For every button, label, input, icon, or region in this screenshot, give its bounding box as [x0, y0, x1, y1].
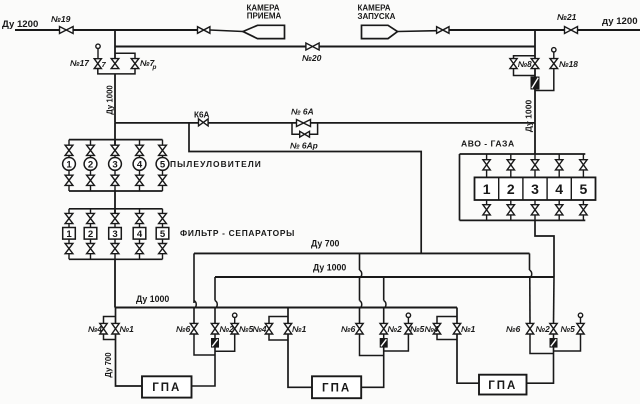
wire: line from valve to receiver chamber tip: [210, 30, 243, 32]
wire: group 3 discharge riser (N2 up): [553, 277, 556, 323]
svg-text:ЗАПУСКА: ЗАПУСКА: [358, 12, 396, 21]
valve below dust collector 2: [87, 175, 95, 185]
wire: suction group 1 bypass top bracket: [104, 317, 116, 324]
wire: right main vertical from K6A line down to AVO top manifold: [534, 123, 536, 154]
wire: top line from launcher valve to outlet valve N21: [449, 29, 565, 31]
restrictor below right main valve: [531, 77, 539, 89]
svg-text:ГПА: ГПА: [152, 382, 181, 394]
valve above filter separator 5: [159, 213, 167, 223]
svg-text:ФИЛЬТР - СЕПАРАТОРЫ: ФИЛЬТР - СЕПАРАТОРЫ: [180, 228, 295, 238]
wire: dust collector 2 top stub: [90, 140, 92, 146]
valve N6 group 1: [190, 323, 197, 334]
valve N1 group 1: [112, 323, 119, 334]
wire: group 2 discharge riser to GPA outlet: [361, 347, 384, 387]
wire: dust collector 1 stub vessel-to-valve: [68, 170, 70, 175]
wire: dust collector 3 stub valve-to-vessel: [114, 155, 116, 157]
wire: inlet line from valve N19 to receiver-branch node: [73, 29, 197, 31]
wire: dust collector 5 bottom stub: [162, 185, 164, 191]
valve N4 group 1: [100, 323, 107, 334]
wire: AVO section 2 top stub: [510, 154, 512, 160]
wire: AVO section 3 top stub: [534, 154, 536, 160]
wire: group 3 recycle riser (N6 up): [529, 253, 531, 270]
valve above AVO section 2: [507, 160, 514, 170]
valve N2 group 3: [550, 323, 557, 334]
svg-text:3: 3: [531, 181, 539, 197]
valve on receiver line (unlabeled): [198, 27, 210, 34]
wire: filter separator 5 stub valve-to-vessel: [162, 224, 164, 228]
wire: AVO section 1 box to bottom valve stub: [486, 200, 488, 205]
valve N1 group 2: [284, 323, 291, 334]
wire: filter separators bottom manifold: [69, 258, 163, 260]
svg-text:№20: №20: [302, 53, 322, 63]
wire: filter separator 2 bottom stub: [90, 254, 92, 260]
component: KAMERA PRIEMA pig receiver chamber: [243, 25, 285, 38]
wire: group 2 bracket N5-to-riser: [384, 334, 409, 351]
valve above AVO section 3: [531, 160, 538, 170]
valve below AVO section 4: [556, 205, 563, 215]
dust collector vessel 2 (circle): [84, 158, 97, 171]
wire: dust collectors top manifold: [69, 139, 163, 141]
valve N5 group 3: [577, 323, 584, 334]
wire: dust collector 5 stub valve-to-vessel: [162, 155, 164, 157]
wire: inlet line left of valve N19: [15, 29, 59, 31]
wire: suction group 3 bypass bottom bracket: [437, 334, 457, 340]
wire: AVO box divider 3: [546, 177, 548, 200]
filter separator vessel 3 (square): [109, 228, 122, 240]
svg-text:ду 1200: ду 1200: [602, 16, 638, 27]
valve N2 group 1: [211, 323, 218, 334]
component: GPA unit 2 box: [312, 376, 361, 398]
wire: filter separator 3 top stub: [114, 209, 116, 214]
valve above AVO section 5: [580, 160, 587, 170]
wire: AVO box divider 2: [522, 177, 524, 200]
wire: group 1 bracket N6-to-riser: [194, 334, 215, 355]
wire: left main vertical through dust section: [114, 123, 116, 145]
wire: filter separators top manifold: [69, 208, 163, 210]
wire: dust collector 1 top stub: [68, 140, 70, 146]
valve N17: [94, 59, 101, 69]
wire: filter separator 3 stub vessel-to-valve: [114, 239, 116, 244]
svg-text:№5: №5: [561, 324, 576, 334]
svg-text:Ду 700: Ду 700: [311, 239, 339, 249]
valve N18: [550, 59, 558, 69]
valve N6A: [297, 120, 311, 127]
wire: AVO section 3 box to bottom valve stub: [534, 200, 536, 205]
svg-text:3: 3: [112, 159, 117, 170]
valve above dust collector 3: [111, 145, 119, 155]
restrictor below N2 group 1: [214, 334, 216, 339]
wire: AVO section 2 box to bottom valve stub: [510, 200, 512, 205]
valve above dust collector 1: [65, 145, 73, 155]
wire: filter separator 1 stub valve-to-vessel: [68, 224, 70, 228]
svg-text:№ 6А: № 6А: [291, 107, 314, 117]
svg-text:№5: №5: [239, 324, 254, 334]
svg-text:АВО - ГАЗА: АВО - ГАЗА: [461, 139, 515, 149]
wire: N6Ar bypass loop: [292, 123, 300, 134]
svg-text:№4: №4: [425, 325, 439, 334]
svg-text:4: 4: [555, 181, 563, 197]
svg-text:№5: №5: [410, 324, 425, 334]
valve K6A: [199, 119, 209, 126]
wire: left group bottom bracket: [98, 69, 135, 74]
valve below filter separator 4: [136, 244, 144, 254]
valve above filter separator 2: [87, 213, 95, 223]
wire: suction group 3 drop from collector: [456, 308, 458, 324]
wire: AVO outlet jog to discharge collector riser: [535, 220, 554, 277]
vent circle above valve N17: [96, 44, 100, 48]
valve above filter separator 4: [136, 213, 144, 223]
svg-text:Ду 1200: Ду 1200: [2, 19, 38, 30]
svg-text:ГПА: ГПА: [322, 382, 351, 394]
wire: filter separator 4 stub vessel-to-valve: [139, 239, 141, 244]
svg-text:К6А: К6А: [194, 111, 210, 120]
svg-text:5: 5: [580, 181, 588, 197]
wire: left main vertical Du1000 down to K6A line: [114, 74, 116, 123]
wire: suction group 3 drop to GPA inlet: [457, 334, 479, 383]
wire: vent stem N5 group 2: [407, 318, 409, 324]
wire: dust collector 4 stub vessel-to-valve: [139, 170, 141, 175]
vent circle above N5 group 2: [406, 313, 410, 317]
svg-text:№4: №4: [88, 325, 102, 334]
wire: Du1000 suction collector line: [115, 307, 457, 309]
svg-text:1: 1: [483, 181, 491, 197]
wire: filter separator 1 stub vessel-to-valve: [68, 239, 70, 244]
wire: suction group 2 bypass bottom bracket: [269, 334, 288, 340]
wire: filter separator 1 bottom stub: [68, 254, 70, 260]
svg-text:№1: №1: [292, 324, 307, 334]
valve N6 group 2: [356, 323, 363, 334]
wire: AVO box divider 4: [570, 177, 572, 200]
wire: dust collector 2 bottom stub: [90, 185, 92, 191]
wire: filter separator 5 stub vessel-to-valve: [162, 239, 164, 244]
wire: group 2 discharge riser (N2 up): [383, 277, 385, 301]
wire: branch from K6A line down and across to Du700 recycle line: [189, 123, 421, 254]
valve N21: [565, 27, 578, 34]
valve below dust collector 1: [65, 175, 73, 185]
filter separator vessel 1 (square): [63, 228, 76, 240]
valve below filter separator 2: [87, 244, 95, 254]
svg-text:№8: №8: [518, 60, 532, 69]
component: AVO cooler box row frame: [475, 177, 596, 200]
valve below filter separator 1: [65, 244, 73, 254]
wire: suction group 1 drop to GPA inlet: [116, 334, 143, 386]
svg-text:Ду 700: Ду 700: [104, 352, 113, 378]
svg-text:ПЫЛЕУЛОВИТЕЛИ: ПЫЛЕУЛОВИТЕЛИ: [170, 159, 262, 169]
valve above filter separator 3: [111, 213, 119, 223]
wire: AVO left side pipe connecting manifolds: [459, 154, 461, 220]
wire: AVO section 4 bottom stub: [558, 215, 560, 221]
wire: dust collector 4 top stub: [139, 140, 141, 146]
vent circle above N5 group 3: [578, 313, 582, 317]
wire: group 3 bracket N6-to-riser: [530, 334, 554, 354]
wire: vent stem of N18: [553, 52, 555, 59]
svg-text:1: 1: [66, 229, 72, 240]
svg-text:№6: №6: [176, 324, 191, 334]
valve N2 group 2: [380, 323, 387, 334]
wire: filter separator 3 bottom stub: [114, 254, 116, 260]
valve above dust collector 5: [159, 145, 167, 155]
svg-text:Ду 1000: Ду 1000: [136, 294, 169, 304]
wire: dust collector 4 stub valve-to-vessel: [139, 155, 141, 157]
wire: left group top bracket to bypass valve N7r: [115, 53, 135, 59]
valve N7r bypass: [131, 59, 139, 69]
svg-text:Ду 1000: Ду 1000: [106, 85, 115, 115]
svg-text:5: 5: [160, 159, 166, 170]
wire: dust collector 5 top stub: [162, 140, 164, 146]
wire: station bypass line N20 (y=46.5): [115, 46, 306, 48]
wire: group 3 bracket N5-to-riser: [554, 334, 581, 351]
component: GPA unit 3 box: [479, 375, 527, 395]
wire: AVO section 5 box to bottom valve stub: [582, 200, 584, 205]
restrictor below N2 group 2: [383, 334, 385, 339]
wire: dust collector 4 bottom stub: [139, 185, 141, 191]
valve below AVO section 5: [580, 205, 587, 215]
svg-text:Ду 1000: Ду 1000: [524, 100, 534, 133]
wire: filter separator 3 stub valve-to-vessel: [114, 224, 116, 228]
wire: group 1 discharge riser to GPA outlet: [192, 347, 216, 386]
wire: right main between bracket and restrictor: [534, 69, 536, 78]
wire: dust collector 5 stub vessel-to-valve: [162, 170, 164, 175]
svg-text:№21: №21: [557, 12, 577, 22]
valve N5 group 2: [405, 323, 412, 334]
valve above AVO section 1: [483, 160, 490, 170]
wire: suction group 3 bypass top bracket: [437, 317, 457, 324]
wire: AVO section 1 stub to box: [486, 170, 488, 178]
svg-text:2: 2: [507, 181, 515, 197]
wire: suction group 1 drop from collector: [115, 308, 117, 324]
svg-text:№4: №4: [253, 325, 267, 334]
wire: AVO section 2 bottom stub: [510, 215, 512, 221]
valve above dust collector 2: [87, 145, 95, 155]
wire: vent stem N5 group 3: [580, 318, 582, 324]
wire: left main vertical between dust and filter sections: [114, 191, 116, 214]
component: KAMERA ZAPUSKA pig launcher chamber: [362, 25, 398, 38]
valve below filter separator 5: [159, 244, 167, 254]
wire: suction group 1 bypass bottom bracket: [104, 334, 116, 340]
wire: filter separator 4 stub valve-to-vessel: [139, 224, 141, 228]
svg-text:№19: №19: [51, 14, 71, 24]
svg-text:5: 5: [160, 229, 166, 240]
svg-text:4: 4: [137, 229, 143, 240]
valve below AVO section 3: [531, 205, 538, 215]
wire: filter separator 5 bottom stub: [162, 254, 164, 260]
svg-text:№18: №18: [559, 59, 578, 69]
svg-text:1: 1: [66, 159, 72, 170]
svg-text:№1: №1: [461, 324, 476, 334]
wire: dust collector 1 bottom stub: [68, 185, 70, 191]
wire: dust collector 3 top stub: [114, 140, 116, 146]
valve N20: [306, 43, 319, 50]
wire: group 1 bracket N5-to-riser: [215, 334, 235, 351]
wire: AVO section 4 top stub: [558, 154, 560, 160]
vent circle above valve N18: [552, 48, 556, 52]
wire: group 3 discharge riser to GPA outlet: [527, 347, 554, 383]
wire: AVO box divider 1: [498, 177, 500, 200]
wire: vent stem N5 group 1: [234, 318, 236, 324]
filter separator vessel 4 (square): [133, 228, 146, 240]
wire: vent stem of N17: [97, 49, 99, 60]
valve N1 group 3: [453, 323, 460, 334]
valve below AVO section 2: [507, 205, 514, 215]
valve N6 group 3: [526, 323, 533, 334]
wire: right group top bracket to bypass valve N8: [514, 56, 536, 59]
wire: left main vertical from filters down to suction collector: [114, 259, 116, 307]
wire: AVO section 3 stub to box: [534, 170, 536, 178]
wire: AVO section 4 box to bottom valve stub: [558, 200, 560, 205]
wire: AVO section 1 top stub: [486, 154, 488, 160]
filter separator vessel 5 (square): [156, 228, 169, 240]
wire: AVO section 3 bottom stub: [534, 215, 536, 221]
dust collector vessel 4 (circle): [133, 158, 146, 171]
valve above filter separator 1: [65, 213, 73, 223]
wire: right main vertical Du1000 down to K6A line: [534, 89, 536, 123]
wire: group 1 discharge riser (N2 up): [214, 277, 216, 301]
valve N6Ar: [300, 131, 310, 137]
valve N8 bypass: [510, 59, 517, 69]
valve N5 group 1: [231, 323, 238, 334]
wire: filter separator 2 top stub: [90, 209, 92, 214]
valve N4 group 2: [265, 323, 272, 334]
svg-text:№1: №1: [120, 324, 135, 334]
svg-text:2: 2: [88, 229, 93, 240]
wire: Du700 recycle collector line: [194, 252, 530, 254]
wire: suction group 2 drop from collector: [287, 308, 289, 324]
valve N4 group 3: [433, 323, 440, 334]
wire: AVO bottom manifold: [460, 219, 586, 221]
wire: K6A cross-connection line: [115, 122, 199, 124]
svg-text:ГПА: ГПА: [488, 380, 517, 392]
svg-text:3: 3: [112, 229, 117, 240]
wire: AVO section 1 bottom stub: [486, 215, 488, 221]
vent circle above N5 group 1: [233, 313, 237, 317]
wire: outlet line to right edge: [578, 29, 640, 31]
valve below dust collector 5: [159, 175, 167, 185]
wire: filter separator 4 bottom stub: [139, 254, 141, 260]
restrictor below N2 group 3: [553, 334, 555, 339]
wire: dust collectors bottom manifold: [69, 190, 163, 192]
component: GPA unit 1 box: [142, 376, 192, 397]
svg-text:№ 6Ар: № 6Ар: [290, 141, 318, 151]
wire: AVO section 5 top stub: [582, 154, 584, 160]
wire: dust collector 2 stub valve-to-vessel: [90, 155, 92, 157]
wire: line from launcher tip to its valve: [398, 30, 438, 33]
wire: filter separator 1 top stub: [68, 209, 70, 214]
wire: right group bottom bracket: [514, 69, 536, 76]
wire: AVO section 5 stub to box: [582, 170, 584, 178]
svg-text:№2: №2: [388, 324, 403, 334]
valve below dust collector 3: [111, 175, 119, 185]
valve N7 on left main line: [111, 59, 119, 69]
valve below filter separator 3: [111, 244, 119, 254]
wire: dust collector 3 bottom stub: [114, 185, 116, 191]
wire: dust collector 2 stub vessel-to-valve: [90, 170, 92, 175]
svg-text:№6: №6: [341, 324, 356, 334]
wire: suction group 2 bypass top bracket: [269, 317, 288, 324]
wire: Du1000 discharge collector line: [215, 276, 554, 278]
valve N19: [60, 27, 74, 34]
wire: suction group 2 drop to GPA inlet: [288, 334, 312, 387]
wire: AVO section 2 stub to box: [510, 170, 512, 178]
wire: N18 blowdown return to main: [535, 69, 554, 91]
svg-text:2: 2: [88, 159, 93, 170]
wire: dust collector 3 stub vessel-to-valve: [114, 170, 116, 175]
svg-text:№6: №6: [506, 324, 521, 334]
dust collector vessel 5 (circle): [156, 158, 169, 171]
wire: filter separator 2 stub valve-to-vessel: [90, 224, 92, 228]
valve below AVO section 1: [483, 205, 490, 215]
svg-text:Ду 1000: Ду 1000: [313, 263, 346, 273]
dust collector vessel 3 (circle): [109, 158, 122, 171]
svg-text:р: р: [152, 64, 157, 71]
wire: group 2 recycle riser (N6 up): [359, 253, 361, 270]
svg-text:№17: №17: [70, 58, 89, 68]
dust collector vessel 1 (circle): [63, 158, 76, 171]
svg-text:ПРИЕМА: ПРИЕМА: [247, 12, 282, 21]
wire: AVO top manifold: [460, 153, 586, 155]
wire: AVO section 5 bottom stub: [582, 215, 584, 221]
valve above dust collector 4: [136, 145, 144, 155]
wire: right main riser from top line down: [534, 30, 536, 59]
valve below dust collector 4: [136, 175, 144, 185]
wire: filter separator 5 top stub: [162, 209, 164, 214]
valve above AVO section 4: [556, 160, 563, 170]
wire: filter separator 4 top stub: [139, 209, 141, 214]
wire: group 1 recycle riser (N6 up): [193, 253, 195, 303]
svg-text:№2: №2: [536, 324, 551, 334]
valve on right main line: [531, 59, 539, 69]
wire: dust collector 1 stub valve-to-vessel: [68, 155, 70, 157]
svg-text:4: 4: [137, 159, 143, 170]
filter separator vessel 2 (square): [84, 228, 97, 240]
wire: AVO section 4 stub to box: [558, 170, 560, 178]
valve on launcher line (unlabeled): [437, 27, 449, 34]
wire: left main riser from top line down to valve group: [114, 30, 116, 59]
wire: filter separator 2 stub vessel-to-valve: [90, 239, 92, 244]
wire: group 2 bracket N6-to-riser: [360, 334, 384, 356]
